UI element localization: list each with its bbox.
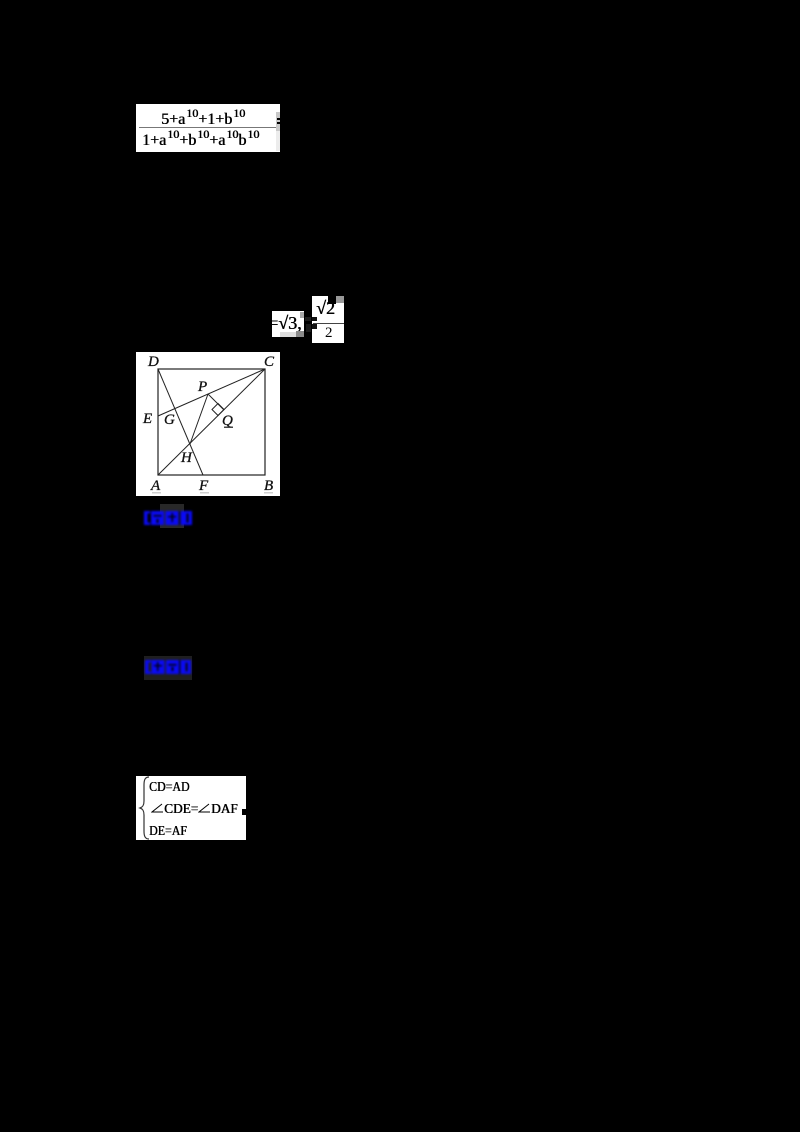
line PH (190, 394, 208, 444)
black square mark (242, 809, 248, 815)
square ABCD (158, 369, 265, 475)
denominator 2 (325, 326, 333, 341)
geometry diagram panel (136, 352, 280, 496)
gray sliver at right edge (276, 112, 280, 131)
formula image 1: big fraction (5+a^10+1+b^10)/(1+a^10+b^10+a^10b^10) (136, 104, 280, 152)
fraction bar (139, 127, 276, 128)
svg-text:B: B (264, 478, 273, 494)
system of equations image (136, 776, 246, 840)
svg-text:E: E (142, 411, 152, 427)
blue tag 1: highlighted box (160, 504, 184, 528)
denominator 1+a^10+b^10+a^10b^10 (142, 133, 259, 149)
line DF (158, 369, 203, 475)
line angle CDE = angle DAF (151, 803, 239, 817)
svg-text:F: F (198, 478, 209, 494)
underline marks (152, 492, 161, 494)
numerator 5+a^10+1+b^10 (161, 112, 245, 128)
svg-text:P: P (197, 379, 207, 395)
line EC (158, 369, 265, 416)
right-angle diamond at Q (212, 404, 224, 416)
svg-text:D: D (147, 354, 159, 370)
svg-text:C: C (264, 354, 275, 370)
blue tag 1 text (144, 509, 192, 527)
equals sign cut at right edge (277, 118, 282, 120)
gray corner marks (300, 312, 304, 318)
line CD=AD (149, 781, 189, 795)
svg-text:G: G (164, 412, 175, 428)
fraction bar (313, 323, 344, 324)
line PQ (208, 394, 224, 410)
faint dark glyph remnants between patches (305, 317, 311, 321)
curly brace (138, 776, 152, 840)
sqrt 2 numerator (316, 299, 335, 317)
blue tag 2: highlighted box (144, 656, 192, 680)
diagonal AC (158, 369, 265, 475)
formula image 2b: sqrt(2)/2 fraction patch (312, 296, 344, 343)
svg-text:A: A (150, 478, 161, 494)
top notch black + gray (328, 296, 336, 304)
formula image 2a: =sqrt(3) patch (272, 311, 304, 337)
svg-text:H: H (180, 450, 193, 466)
line DE=AF (149, 825, 187, 839)
blue tag 2 text (145, 658, 191, 676)
dark marks at left edge (312, 317, 317, 321)
